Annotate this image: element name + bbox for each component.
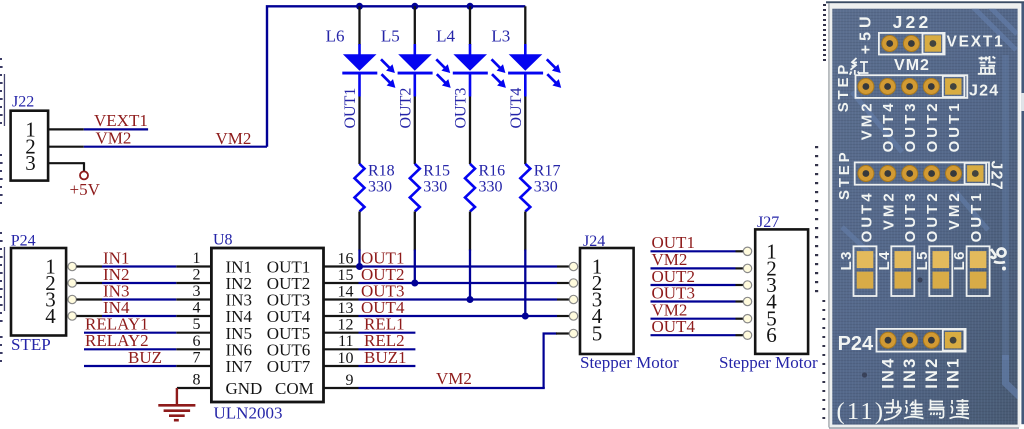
svg-text:OUT3: OUT3 <box>453 88 470 129</box>
svg-text:11: 11 <box>338 333 353 350</box>
junction node OUT4 <box>522 313 529 320</box>
svg-text:4: 4 <box>193 300 201 317</box>
LED L3 <box>491 6 561 96</box>
PCB mark (squiggle) <box>991 249 1006 263</box>
svg-text:5: 5 <box>592 322 603 346</box>
svg-text:J27: J27 <box>988 161 1005 191</box>
connector P24 <box>11 232 66 354</box>
svg-text:330: 330 <box>368 178 392 195</box>
resistor R15 330 <box>410 163 450 212</box>
wire <box>414 97 416 165</box>
svg-text:330: 330 <box>534 178 558 195</box>
wire OUT1 (pin 16) <box>324 248 570 267</box>
wire OUT3 (pin 14) <box>324 281 570 300</box>
svg-text:4: 4 <box>45 304 56 328</box>
pin circle J27-4 <box>743 297 751 305</box>
pin circle P24-2 <box>68 279 76 287</box>
pin circle J24-2 <box>569 279 577 287</box>
connector J27 <box>719 214 818 372</box>
svg-text:BUZ1: BUZ1 <box>364 348 407 367</box>
svg-text:L5: L5 <box>381 27 400 46</box>
wire <box>358 97 360 165</box>
svg-text:OUT3: OUT3 <box>902 100 919 152</box>
svg-text:IN3: IN3 <box>901 357 919 389</box>
connector J22 <box>11 94 49 181</box>
PCB connector P24 pads <box>877 329 966 352</box>
pin circle J24-4 <box>569 312 577 320</box>
margin text fragments (left edge) <box>0 58 5 362</box>
svg-text:BUZ: BUZ <box>128 348 162 367</box>
junction node (rail / L4) <box>467 3 474 10</box>
svg-text:GND: GND <box>226 379 263 398</box>
svg-text:OUT3: OUT3 <box>902 190 919 242</box>
svg-text:VM2: VM2 <box>436 369 472 388</box>
wire VM2 rail to LEDs <box>267 6 525 146</box>
svg-text:14: 14 <box>338 283 354 300</box>
resistor R16 330 <box>465 163 505 212</box>
wire OUT3 (J27 pin 4) <box>651 283 744 302</box>
PCB traces <box>842 7 1022 399</box>
svg-text:L5: L5 <box>914 250 931 271</box>
svg-text:OUT1: OUT1 <box>968 190 985 242</box>
pin circle J24-3 <box>569 295 577 303</box>
LED L5 <box>381 6 451 96</box>
pin circle J27-1 <box>743 247 751 255</box>
wire OUT2 (pin 15) <box>324 265 570 284</box>
pin circle J27-2 <box>743 264 751 272</box>
svg-text:VM2: VM2 <box>894 57 930 74</box>
pin circle J27-6 <box>743 331 751 339</box>
svg-text:VM2: VM2 <box>96 129 132 148</box>
via <box>862 372 867 377</box>
PCB label red-chinese <box>850 58 869 75</box>
svg-text:6: 6 <box>766 323 777 347</box>
wire <box>469 212 471 251</box>
wire <box>469 97 471 165</box>
wire IN4 <box>76 298 211 317</box>
wire <box>524 212 526 251</box>
svg-text:VM2: VM2 <box>880 190 897 230</box>
svg-text:OUT1: OUT1 <box>946 100 963 152</box>
wire VEXT1 <box>48 111 148 130</box>
svg-text:R17: R17 <box>534 163 561 180</box>
svg-text:OUT2: OUT2 <box>397 88 414 129</box>
svg-text:VM2: VM2 <box>216 129 252 148</box>
svg-text:OUT4: OUT4 <box>652 317 696 336</box>
svg-text:OUT7: OUT7 <box>267 357 311 376</box>
svg-text:IN7: IN7 <box>226 357 253 376</box>
svg-text:3: 3 <box>25 151 36 175</box>
svg-text:5: 5 <box>193 316 201 333</box>
wire BUZ <box>84 348 211 367</box>
svg-text:OUT3: OUT3 <box>652 283 695 302</box>
wire <box>524 97 526 165</box>
wire REL2 (pin 11) <box>324 331 416 350</box>
svg-text:J22: J22 <box>12 94 34 111</box>
wire IN1 <box>76 248 211 267</box>
svg-text:OUT2: OUT2 <box>924 190 941 242</box>
pin circle J27-5 <box>743 315 751 323</box>
svg-text:13: 13 <box>338 300 354 317</box>
wire OUT1 (J27 pin 1) <box>651 233 744 252</box>
wire VM2 (J27 pin 5) <box>651 301 744 320</box>
svg-text:9: 9 <box>346 372 354 389</box>
svg-text:IN1: IN1 <box>945 357 963 389</box>
wire <box>358 212 360 251</box>
svg-text:330: 330 <box>423 178 447 195</box>
LED L6 <box>326 6 396 96</box>
power +5V (J22 pin3) <box>48 162 100 199</box>
ground <box>158 388 195 420</box>
svg-text:2: 2 <box>193 267 201 284</box>
svg-text:ULN2003: ULN2003 <box>214 404 283 423</box>
junction node (rail / L6) <box>356 3 363 10</box>
svg-text:OUT2: OUT2 <box>924 100 941 152</box>
svg-text:P24: P24 <box>838 333 874 355</box>
wire IN3 <box>76 281 211 300</box>
wire VM2 (J22 pin2 to LED rail) <box>48 129 267 149</box>
pin circle P24-1 <box>68 262 76 270</box>
wire <box>414 212 416 251</box>
svg-text:R18: R18 <box>368 163 395 180</box>
wire VM2 (J27 pin 2) <box>651 250 744 269</box>
svg-text:Stepper Motor: Stepper Motor <box>719 353 818 372</box>
op-amp / driver IC U8 ULN2003 <box>211 232 323 423</box>
wire RELAY2 <box>84 331 211 350</box>
svg-text:R16: R16 <box>479 163 506 180</box>
svg-text:(11): (11) <box>837 398 886 425</box>
junction node OUT2 <box>411 280 418 287</box>
svg-text:J24: J24 <box>969 83 999 100</box>
svg-text:12: 12 <box>338 317 354 334</box>
svg-text:7: 7 <box>193 350 201 367</box>
PCB LED footprint L3 <box>838 246 877 296</box>
PCB connector J22 pads <box>879 33 945 55</box>
pin circle P24-4 <box>68 312 76 320</box>
svg-text:COM: COM <box>275 379 314 398</box>
wire GND (pin 8) <box>177 387 212 389</box>
wire IN2 <box>76 265 211 284</box>
svg-text:VEXT1: VEXT1 <box>947 34 1005 51</box>
junction node OUT1 <box>356 263 363 270</box>
svg-text:IN2: IN2 <box>923 357 941 389</box>
svg-text:6: 6 <box>193 333 201 350</box>
svg-text:P24: P24 <box>11 232 36 249</box>
wire REL1 (pin 12) <box>324 315 416 334</box>
svg-text:STEP: STEP <box>11 335 51 354</box>
wire RELAY1 <box>84 315 211 334</box>
resistor R17 330 <box>520 163 560 212</box>
pin circle P24-3 <box>68 295 76 303</box>
svg-text:OUT4: OUT4 <box>880 100 897 152</box>
svg-text:VM2: VM2 <box>858 100 875 140</box>
svg-text:J24: J24 <box>583 233 605 250</box>
svg-text:+5U: +5U <box>858 12 875 54</box>
svg-text:L3: L3 <box>838 250 855 271</box>
junction node OUT3 <box>467 296 474 303</box>
PCB LED footprint L4 <box>876 246 915 296</box>
svg-text:Stepper Motor: Stepper Motor <box>580 353 679 372</box>
svg-text:L6: L6 <box>951 250 968 271</box>
svg-text:J22: J22 <box>893 12 932 32</box>
PCB connector J24 pads <box>856 75 968 98</box>
pin circle J27-3 <box>743 281 751 289</box>
svg-text:OUT4: OUT4 <box>858 190 875 242</box>
wire OUT4 (J27 pin 6) <box>651 317 744 336</box>
wire VM2 (pin 9 COM to J24 pin 5) <box>324 334 570 389</box>
adjacent photo sliver (far right) <box>1021 3 1024 424</box>
svg-text:1: 1 <box>193 250 201 267</box>
svg-text:IN4: IN4 <box>880 357 898 389</box>
pin circle J24-5 <box>569 329 577 337</box>
PCB LED footprint L6 <box>951 246 990 296</box>
connector J24 <box>580 233 679 372</box>
svg-text:+5V: +5V <box>70 180 101 199</box>
margin text fragments (right of schematic) <box>815 4 826 419</box>
junction node (rail / L5) <box>411 3 418 10</box>
LED L4 <box>436 6 506 96</box>
svg-text:R15: R15 <box>423 163 450 180</box>
PCB photo frame <box>826 1 1024 428</box>
svg-text:8: 8 <box>193 372 201 389</box>
wire BUZ1 (pin 10) <box>324 348 416 367</box>
svg-text:10: 10 <box>338 350 354 367</box>
svg-text:15: 15 <box>338 267 354 284</box>
svg-text:330: 330 <box>479 178 503 195</box>
svg-text:L6: L6 <box>326 27 345 46</box>
svg-text:VM2: VM2 <box>946 190 963 230</box>
svg-text:L4: L4 <box>876 250 893 271</box>
svg-text:L4: L4 <box>436 27 455 46</box>
PCB LED footprint L5 <box>914 246 953 296</box>
PCB caption chinese bu-jin-ma-da <box>884 399 969 420</box>
svg-text:16: 16 <box>338 250 354 267</box>
svg-text:U8: U8 <box>213 232 233 249</box>
PCB label blue-chinese <box>978 56 996 74</box>
wire OUT2 (J27 pin 3) <box>651 267 744 286</box>
svg-text:STEP: STEP <box>835 62 852 112</box>
svg-text:OUT1: OUT1 <box>342 88 359 129</box>
svg-text:STEP: STEP <box>836 150 853 200</box>
wire OUT4 (pin 13) <box>324 298 570 317</box>
svg-text:L3: L3 <box>491 27 510 46</box>
resistor R18 330 <box>355 163 395 212</box>
pin circle J24-1 <box>569 262 577 270</box>
svg-text:J27: J27 <box>757 214 779 231</box>
svg-text:3: 3 <box>193 283 201 300</box>
via <box>917 277 922 282</box>
svg-text:OUT4: OUT4 <box>508 88 525 129</box>
PCB connector J27 pads <box>855 162 989 184</box>
svg-text:VEXT1: VEXT1 <box>94 111 148 130</box>
